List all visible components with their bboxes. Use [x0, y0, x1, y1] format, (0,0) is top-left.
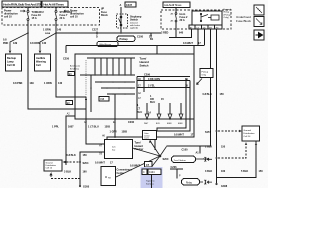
svg-text:1 BLK: 1 BLK: [205, 146, 212, 149]
header box Hot At All Times (left): [42, 1, 68, 7]
svg-text:A1 (Case): A1 (Case): [70, 65, 80, 68]
arrow to fuse: [20, 10, 25, 12]
svg-text:Cover: Cover: [144, 137, 149, 140]
pin E8: [66, 101, 73, 105]
svg-text:140: 140: [58, 82, 63, 85]
wire from A down through stoplamp switch: [120, 7, 122, 33]
svg-text:S157: S157: [205, 131, 211, 134]
fuse block dashed outline (power distribution): [2, 8, 100, 26]
ground wire 0.8 BLK 150 from G6: [80, 152, 105, 186]
svg-text:3 DK GRN: 3 DK GRN: [148, 78, 160, 81]
svg-text:G308: G308: [221, 185, 228, 188]
svg-text:0.8 BLK: 0.8 BLK: [203, 93, 213, 96]
svg-text:0.8 WHT: 0.8 WHT: [95, 162, 105, 165]
svg-text:1607: 1607: [68, 126, 74, 129]
svg-text:S147: S147: [203, 158, 209, 161]
svg-text:150: 150: [259, 170, 264, 173]
svg-text:0.8 WHT: 0.8 WHT: [183, 42, 193, 45]
utility note bubble: [97, 42, 118, 47]
horizontal wire 1 ORN to C227 and right: [56, 32, 161, 34]
svg-text:Turn Flasher: Turn Flasher: [174, 159, 187, 162]
svg-text:Switch: Switch: [130, 19, 139, 22]
wire 1 LT BLU 1505 from A2 to flasher: [86, 119, 105, 144]
wire 2 RED 640 from horn fuse to relay coil: [169, 22, 192, 38]
svg-text:BLU: BLU: [137, 111, 142, 114]
svg-text:139: 139: [13, 42, 18, 45]
fuse TURN-B/U Fuse 16 15 A: [27, 11, 44, 21]
label A1 case E2 pins: [70, 65, 80, 71]
label 1 ORN 140 (lower): [44, 82, 63, 85]
svg-text:1 ORN: 1 ORN: [44, 82, 52, 85]
svg-text:150: 150: [220, 93, 225, 96]
legend icon arrow: [254, 30, 264, 40]
svg-text:Ground: Ground: [46, 161, 54, 164]
switch bottom pins A2 E1 C206: [84, 121, 135, 124]
relay pin row B7 C7 D6 E9: [189, 25, 222, 29]
svg-text:(Pickup: (Pickup: [224, 14, 232, 16]
label 3 BLK 160: [64, 171, 87, 174]
small module box above junction: [143, 131, 157, 140]
svg-text:Taped to: Taped to: [146, 180, 155, 183]
svg-text:C104: C104: [149, 172, 155, 174]
relay bubble: [182, 179, 200, 186]
arrow into audio alarm box: [39, 51, 42, 54]
arrow + label power distribution cell 10 (right): [64, 10, 84, 19]
header box Hot At All Times (middle): [163, 2, 190, 8]
svg-text:C100: C100: [182, 149, 189, 152]
box backup lamp cell: [6, 54, 22, 71]
svg-text:140: 140: [42, 42, 47, 45]
svg-text:3 BLK: 3 BLK: [64, 171, 71, 174]
label Hazards Relay (Pickup Only): [224, 8, 233, 19]
turn hazard flasher U3 box: [105, 140, 133, 159]
wires from grid to bottom pins: [86, 94, 115, 119]
label taped to harness: [146, 180, 155, 186]
label 0.8 WHT C7: [130, 162, 152, 168]
svg-text:2 YEL: 2 YEL: [148, 85, 155, 88]
svg-text:Relay: Relay: [186, 182, 193, 184]
svg-text:applied): applied): [130, 28, 138, 30]
label 0.8 PNK 139 (lower): [13, 82, 34, 85]
svg-text:Cell 40: Cell 40: [7, 64, 16, 67]
svg-text:0.8 WHT: 0.8 WHT: [130, 165, 140, 168]
label 0.8 ORN 140 (upper): [30, 42, 47, 45]
svg-text:150: 150: [83, 154, 88, 157]
arrow into backup lamp box: [9, 51, 12, 54]
svg-text:cell 10: cell 10: [4, 16, 12, 19]
svg-text:Hot At All Times: Hot At All Times: [164, 3, 182, 7]
dashed link S157 to ground cell box right: [218, 130, 241, 132]
wire 0.8 WHT 17 horizontal: [66, 46, 204, 55]
svg-text:Hot At All Times: Hot At All Times: [43, 2, 64, 6]
highlight selection C104: [141, 167, 163, 188]
label 1 ORN 140 / S298 at top wire: [43, 29, 62, 36]
svg-text:1 GRY: 1 GRY: [110, 131, 118, 134]
svg-text:1 ORN: 1 ORN: [43, 29, 51, 32]
svg-text:haz: haz: [112, 150, 115, 152]
header box Hot In RUN Bulb Test And START: [2, 1, 45, 7]
pin E6: [68, 72, 75, 76]
legend icon fuse 2: [254, 17, 264, 27]
fuse STOP/HAZ Fuse 7 20 A: [55, 11, 73, 21]
label Fuse Block: [101, 8, 108, 18]
convenience center box: [101, 167, 116, 186]
svg-text:C206: C206: [128, 121, 135, 124]
node C98 boxed: [99, 97, 109, 102]
box ground distribution cell 14 (left): [44, 160, 62, 171]
splice S204: [79, 161, 81, 163]
svg-text:1585: 1585: [122, 131, 128, 134]
svg-text:S298: S298: [45, 33, 51, 35]
connector C227 tick: [96, 32, 98, 35]
svg-text:Cell 14: Cell 14: [46, 168, 53, 170]
switch contact grid: [80, 58, 135, 112]
ground G308: [215, 183, 217, 185]
wire 1 ORN 140 vertical from STOP fuse: [56, 21, 86, 98]
svg-text:harness: harness: [146, 183, 155, 186]
svg-text:1 LT BLU: 1 LT BLU: [88, 126, 99, 129]
label 0.8 WHT 17: [183, 42, 201, 45]
branch wire to backup lamp cell: [10, 33, 28, 50]
svg-text:C100: C100: [137, 36, 144, 39]
svg-text:Fuse Block: Fuse Block: [236, 19, 251, 23]
svg-text:Distribution: Distribution: [46, 164, 57, 167]
legend icon fuse 1: [254, 5, 264, 15]
wire 1 PPL 1607 down from A2: [66, 116, 75, 165]
svg-text:139: 139: [30, 82, 35, 85]
svg-text:160: 160: [221, 170, 226, 173]
wire 1 GRY 1585 from E1 to flasher: [114, 119, 116, 137]
wire through C104: [151, 175, 153, 189]
wire to C100 A1: [167, 146, 201, 154]
svg-text:15 A: 15 A: [32, 17, 37, 20]
branch wire to audio alarm cell: [40, 33, 56, 50]
svg-text:D: D: [96, 36, 98, 39]
header drops to fuses: [28, 7, 176, 13]
svg-text:S200: S200: [163, 158, 169, 161]
svg-text:Pickup: Pickup: [202, 72, 209, 74]
right side wires from switch going down: [157, 79, 186, 131]
label power distribution cell 10 (left): [4, 10, 18, 19]
switch label: [140, 57, 150, 68]
inline connector glyph 2: [200, 180, 213, 185]
svg-text:BLU: BLU: [150, 101, 155, 104]
svg-text:cell 10: cell 10: [70, 16, 78, 19]
pin A2b wire 1 ORN 15: [138, 92, 164, 104]
wire 0.8 PNK 139 vertical from TURN fuse: [28, 21, 86, 110]
svg-text:S204: S204: [83, 162, 89, 165]
svg-text:E/BN: E/BN: [167, 123, 172, 125]
svg-text:A: A: [120, 4, 122, 7]
label 3 BLK 160 right: [205, 170, 226, 173]
wire horizontal to C7 row: [107, 46, 194, 151]
svg-text:PNK: PNK: [3, 42, 8, 45]
pin A7 wire 1 LT BLU 14: [137, 97, 151, 115]
underhood fuse block dashed outline: [161, 10, 231, 29]
svg-text:0.8 WHT: 0.8 WHT: [174, 134, 184, 137]
junction S200 fan: [116, 142, 167, 189]
svg-text:5 BLK: 5 BLK: [241, 170, 248, 173]
turn/hazard switch U2 outer box: [75, 54, 194, 119]
pickup only note box: [197, 69, 214, 85]
svg-text:Cell 14: Cell 14: [244, 136, 252, 138]
pin D6 wire 3 DK GRN 19: [138, 78, 188, 81]
label 0.8 WHT 17 mid: [174, 134, 194, 137]
wire 5 BLK 150 from ground cell down: [217, 141, 257, 178]
svg-text:1505: 1505: [105, 126, 111, 129]
svg-text:Cell: Cell: [36, 64, 41, 67]
svg-text:1 PPL: 1 PPL: [52, 126, 59, 129]
pin P wire to relay bubble: [176, 169, 178, 179]
splice S157: [216, 130, 218, 132]
svg-text:140: 140: [57, 29, 62, 32]
svg-text:Relay: Relay: [224, 12, 230, 14]
dashed link S204 to ground cell box: [65, 161, 79, 163]
svg-text:E2 (Pins): E2 (Pins): [70, 69, 79, 71]
ground G200: [79, 185, 81, 187]
svg-text:Distribution: Distribution: [244, 132, 256, 135]
flasher pins H6 H7 G6: [99, 136, 106, 156]
dashed wire from arrow: [51, 178, 80, 180]
svg-text:E/BN: E/BN: [178, 123, 183, 125]
svg-text:C256: C256: [63, 58, 70, 61]
connector C256 entry: [65, 47, 67, 54]
stoplamp switch dashed box with symbol: [117, 14, 128, 28]
svg-text:20 A: 20 A: [180, 19, 185, 22]
fuse Horn Fuse 2 20 A: [171, 13, 189, 23]
box audio alarm cell: [35, 54, 51, 71]
label 2 LT BLU C100 on wire: [122, 36, 153, 39]
connector boxes C C104: [142, 169, 161, 175]
svg-text:Only): Only): [224, 17, 229, 19]
off-page arrows from switch outputs: [147, 103, 181, 114]
svg-text:20 A: 20 A: [60, 17, 65, 20]
pickup note bubble: [117, 36, 135, 42]
svg-text:Pickup: Pickup: [120, 38, 129, 41]
svg-text:G200: G200: [83, 186, 90, 189]
svg-text:C227: C227: [92, 29, 99, 32]
label Stoplamp Switch: [130, 16, 142, 30]
label 0.8 WHT 17 conv: [95, 162, 113, 165]
pin A2 left: [67, 113, 71, 116]
svg-text:160: 160: [83, 171, 88, 174]
svg-text:C437: C437: [126, 4, 133, 7]
pin ticks D8 B1: [150, 33, 152, 36]
pin E7 wire 2 YEL 18: [138, 85, 188, 88]
inline connector glyph 1: [196, 157, 213, 162]
svg-text:3 BLK: 3 BLK: [205, 170, 212, 173]
label 0.8 PNK 139 (upper): [3, 39, 18, 45]
label Turn/Hazard Flasher: [135, 142, 144, 152]
hazard relay U1 box: [192, 11, 222, 25]
svg-text:Block: Block: [101, 14, 108, 17]
svg-text:Hot In RUN, Bulb Test And STAR: Hot In RUN, Bulb Test And START: [3, 2, 45, 6]
label 0.8 BLK 150 right: [203, 93, 225, 96]
node A C437 at top of stoplamp drop: [120, 2, 137, 7]
svg-text:Ground: Ground: [244, 129, 252, 132]
svg-text:C98: C98: [100, 99, 105, 101]
grid junction dots: [85, 74, 132, 95]
label Convenience Center: [117, 169, 133, 175]
arrow up under ground cell box: [50, 174, 52, 178]
svg-text:0.8 BLK: 0.8 BLK: [67, 154, 77, 157]
label 1 BLK 150: [205, 146, 226, 149]
svg-text:Hazards: Hazards: [224, 8, 233, 11]
svg-text:0.8 ORN: 0.8 ORN: [30, 42, 40, 45]
flasher bubble near A1: [172, 156, 196, 163]
svg-text:Switch: Switch: [140, 64, 149, 68]
dashed wire S147 up to ground cell: [218, 145, 246, 159]
label Underhood Fuse Block: [236, 15, 251, 23]
relay pin wires down: [197, 29, 199, 46]
svg-text:2 RED: 2 RED: [161, 32, 169, 35]
svg-text:640: 640: [179, 32, 184, 35]
splice S147: [216, 157, 218, 159]
box ground distribution cell 14 (right): [242, 126, 260, 141]
svg-text:0.8 PNK: 0.8 PNK: [13, 82, 23, 85]
svg-text:150: 150: [221, 146, 226, 149]
